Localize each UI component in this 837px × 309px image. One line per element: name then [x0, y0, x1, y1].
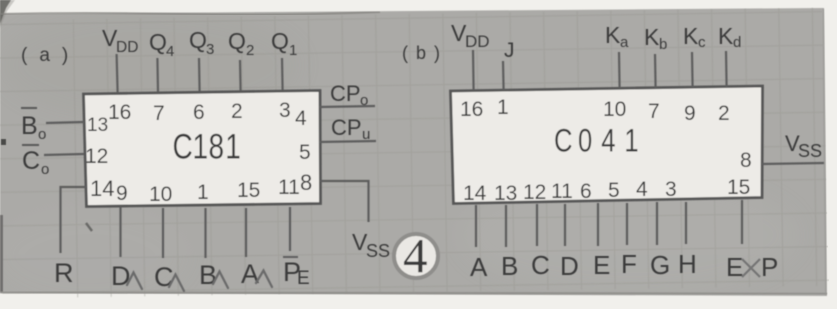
svg-text:3: 3	[665, 178, 677, 201]
svg-text:B: B	[199, 260, 217, 290]
net label Kc	[683, 23, 706, 51]
net label Ka	[605, 22, 629, 51]
wire pin 9 to Dlambda	[119, 207, 121, 257]
net label CPu	[331, 115, 370, 143]
svg-text:H: H	[678, 249, 697, 279]
svg-text:1: 1	[197, 181, 209, 204]
input label D	[111, 261, 142, 291]
svg-text:SS: SS	[798, 141, 822, 161]
svg-text:F: F	[621, 249, 637, 279]
wire Kd to pin 2	[725, 51, 728, 87]
svg-text:11: 11	[278, 176, 300, 199]
wire R to pin 14	[61, 187, 87, 253]
net label Q1	[271, 28, 297, 59]
svg-text:11: 11	[551, 180, 573, 203]
wire Kc to pin 9	[691, 52, 694, 87]
svg-text:CP: CP	[330, 81, 361, 106]
input label A	[241, 259, 272, 289]
svg-text:6: 6	[580, 180, 592, 203]
wire VDD to pin 16 (b)	[472, 50, 475, 90]
dark scan streak left edge	[0, 215, 3, 292]
corner smudge	[0, 0, 15, 28]
svg-text:2: 2	[231, 100, 243, 123]
svg-text:9: 9	[684, 102, 696, 125]
wire VDD to pin 16	[117, 54, 118, 92]
svg-text:3: 3	[279, 99, 291, 122]
svg-text:R: R	[54, 258, 74, 288]
wire B0bar to pin 13	[46, 122, 84, 123]
svg-text:J: J	[504, 39, 515, 62]
net label VSS (a)	[352, 229, 390, 261]
wire pin 15 to Alambda	[245, 208, 247, 257]
net label CP0	[330, 81, 368, 109]
figure number 4 circled	[394, 228, 438, 283]
svg-text:o: o	[41, 161, 49, 178]
svg-text:8: 8	[740, 149, 752, 172]
svg-text:2: 2	[718, 102, 730, 125]
net label Q3	[189, 27, 214, 58]
svg-text:SS: SS	[366, 241, 390, 261]
svg-text:b: b	[659, 36, 667, 53]
svg-text:3: 3	[206, 41, 214, 58]
svg-text:DD: DD	[116, 39, 138, 56]
IC U1 C181 body	[84, 91, 321, 207]
svg-text:Q: Q	[189, 27, 207, 53]
svg-text:E: E	[726, 252, 743, 282]
svg-text:(b): (b)	[402, 43, 448, 63]
svg-text:4: 4	[166, 43, 174, 60]
wire pin 5 to F	[626, 203, 628, 245]
svg-text:D: D	[560, 251, 579, 281]
svg-text:A: A	[470, 252, 488, 282]
wire pin 12 to C	[536, 204, 538, 246]
wire pin 4 to G	[656, 202, 658, 245]
svg-text:c: c	[698, 34, 706, 51]
input label C	[154, 262, 184, 292]
svg-text:4: 4	[295, 107, 307, 130]
svg-text:5: 5	[608, 179, 620, 202]
svg-text:14: 14	[463, 182, 487, 205]
svg-text:13: 13	[87, 115, 108, 136]
wire pin 6 to E	[597, 203, 599, 246]
svg-text:o: o	[360, 92, 368, 109]
svg-text:Q: Q	[271, 28, 289, 54]
svg-text:6: 6	[193, 101, 205, 124]
wire Q1 to pin 3	[281, 58, 284, 90]
svg-text:2: 2	[246, 42, 254, 59]
IC U2 name C041	[554, 124, 639, 159]
scan edge bottom shade	[0, 292, 827, 294]
wire Q3 to pin 6	[198, 58, 201, 91]
svg-text:16: 16	[108, 101, 131, 124]
input label EXP	[726, 252, 778, 282]
svg-text:13: 13	[494, 182, 517, 205]
svg-text:CP: CP	[331, 115, 362, 140]
dark scan corner top-left	[0, 0, 11, 24]
svg-text:P: P	[761, 252, 778, 282]
wire pin 11 to D	[564, 204, 566, 246]
svg-text:C: C	[22, 147, 40, 175]
svg-text:B: B	[21, 112, 38, 140]
svg-text:12: 12	[523, 181, 546, 204]
IC U1 name C181	[173, 126, 241, 166]
wire pin 8 to VSS (b)	[762, 163, 824, 164]
svg-text:5: 5	[299, 141, 311, 164]
svg-text:E: E	[593, 250, 610, 280]
wire C0bar to pin 12	[44, 154, 84, 155]
svg-text:C181: C181	[173, 126, 241, 166]
svg-text:7: 7	[648, 100, 660, 123]
wire Kb to pin 7	[654, 54, 657, 88]
svg-text:15: 15	[727, 176, 750, 199]
svg-text:B: B	[501, 251, 518, 281]
net label VSS (b)	[785, 131, 822, 161]
svg-text:1: 1	[289, 42, 297, 59]
svg-text:D: D	[111, 261, 131, 291]
input label B	[199, 260, 228, 290]
net label VDD (b)	[451, 20, 490, 51]
svg-text:C: C	[154, 262, 174, 292]
svg-text:Q: Q	[149, 29, 167, 55]
svg-text:4: 4	[403, 228, 428, 283]
stray pencil tick	[86, 223, 92, 231]
svg-text:C: C	[531, 250, 550, 280]
wire CPu from pin 5	[319, 141, 376, 142]
net label B0bar	[21, 108, 46, 143]
svg-text:9: 9	[116, 182, 128, 205]
wire pin 15 to EXP	[741, 200, 743, 244]
svg-text:a: a	[620, 34, 629, 51]
wire Q2 to pin 2	[239, 60, 242, 91]
net label VDD	[102, 25, 138, 56]
svg-text:10: 10	[603, 98, 626, 121]
svg-text:E: E	[297, 268, 310, 289]
svg-text:A: A	[241, 259, 259, 289]
wire pin 10 to Clambda	[162, 208, 164, 258]
net label Q4	[149, 29, 174, 60]
svg-text:K: K	[605, 22, 621, 48]
svg-text:7: 7	[153, 102, 165, 125]
wire CP0 from pin 4	[319, 106, 375, 107]
svg-text:d: d	[733, 34, 741, 51]
wire pin 8 to VSS	[320, 181, 369, 222]
wire pin 3 to H	[685, 202, 687, 244]
wire pin 13 to B	[505, 205, 507, 247]
wire pin 14 to A	[475, 205, 477, 247]
wire Q4 to pin 7	[156, 58, 159, 92]
torn scan edge top	[0, 12, 380, 15]
svg-text:(a): (a)	[21, 45, 80, 66]
svg-text:10: 10	[149, 183, 172, 206]
svg-text:14: 14	[90, 176, 114, 201]
wire pin 1 to Blambda	[204, 208, 206, 258]
net label Kb	[644, 24, 667, 53]
svg-text:15: 15	[237, 179, 260, 202]
svg-text:1: 1	[497, 96, 509, 119]
scan edge right shade	[823, 9, 826, 295]
svg-text:o: o	[38, 126, 46, 143]
input label PEbar	[283, 257, 310, 289]
wire pin 11 to PEbar	[289, 207, 291, 251]
wire Ka to pin 10	[618, 52, 621, 88]
svg-text:G: G	[650, 250, 670, 280]
net label C0bar	[22, 145, 49, 178]
svg-text:16: 16	[460, 98, 483, 121]
wire J to pin 1	[502, 61, 505, 90]
svg-text:Q: Q	[228, 28, 246, 54]
svg-text:K: K	[718, 23, 734, 49]
net label Q2	[228, 28, 254, 59]
IC U2 C041 body	[451, 86, 763, 204]
dark speck left edge	[1, 139, 6, 145]
svg-text:4: 4	[636, 178, 648, 201]
svg-text:K: K	[644, 24, 660, 50]
svg-text:DD: DD	[465, 32, 490, 51]
net label Kd	[718, 23, 741, 51]
svg-text:K: K	[683, 23, 699, 49]
svg-text:12: 12	[85, 145, 108, 168]
svg-text:u: u	[362, 126, 370, 143]
svg-text:8: 8	[300, 170, 312, 195]
